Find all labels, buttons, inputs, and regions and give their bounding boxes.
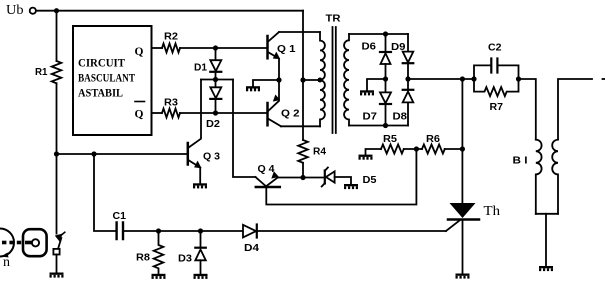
svg-text:R1: R1 — [35, 67, 48, 78]
inductor B1 right winding — [552, 140, 558, 214]
wire to Q3 collector — [189, 80, 201, 148]
primary winding — [320, 32, 325, 80]
node junction dot R4/Q4 emitter/D5 — [300, 175, 305, 180]
svg-text:D5: D5 — [363, 175, 377, 186]
wire switch to ground — [56, 255, 58, 273]
wire C2R7 to B1 left winding — [519, 79, 536, 140]
svg-text:R2: R2 — [164, 32, 178, 43]
diode D6 — [385, 34, 387, 52]
svg-text:TR: TR — [326, 14, 342, 25]
svg-text:D9: D9 — [391, 42, 406, 53]
wire center tap — [303, 79, 320, 81]
wire B1 to ground — [545, 214, 547, 266]
node junction dot D9/D8/output — [405, 76, 410, 81]
resistor R1 — [52, 61, 62, 83]
wire R3 to Q2 base — [180, 112, 266, 114]
svg-text:R6: R6 — [426, 134, 440, 145]
wire to Q4 base — [233, 80, 256, 178]
wire motor shaft dashes — [2, 241, 32, 245]
svg-text:D3: D3 — [178, 254, 192, 265]
switch contact arrow — [55, 233, 63, 241]
wire rect top D1D2 junction — [201, 79, 233, 81]
node junction dot at R1 top — [54, 8, 59, 13]
svg-text:Q: Q — [135, 109, 144, 121]
tachometer inner circle — [32, 239, 39, 246]
svg-text:R7: R7 — [490, 102, 504, 113]
svg-text:D6: D6 — [362, 42, 377, 53]
node junction dot D2/R3 — [213, 110, 218, 115]
svg-text:BASCULANT: BASCULANT — [78, 73, 135, 85]
wire left rail upper — [56, 11, 58, 61]
core lines — [333, 27, 336, 133]
node junction dot R6/Th — [460, 146, 465, 151]
node junction dot D1/D2 — [213, 77, 218, 82]
node junction dot output / Th branch — [460, 76, 465, 81]
svg-text:Ub: Ub — [6, 3, 24, 18]
ground D5 — [344, 184, 358, 189]
wire R5 to R6 — [404, 148, 422, 150]
node junction dot R5/R6/Q4 collector — [414, 146, 419, 151]
thyristor Th — [450, 203, 476, 218]
svg-text:Th: Th — [484, 204, 501, 219]
resistor R7 — [474, 79, 519, 96]
svg-text:D4: D4 — [244, 243, 259, 254]
node junction dot D6/D7/ground — [383, 76, 388, 81]
svg-text:ASTABIL: ASTABIL — [78, 88, 123, 100]
node junction dot D3 — [198, 228, 203, 233]
node junction dot R1/base line — [54, 151, 59, 156]
svg-text:C2: C2 — [488, 43, 502, 54]
secondary winding — [344, 34, 349, 126]
svg-text:CIRCUIT: CIRCUIT — [78, 58, 125, 70]
wire Q3 base line — [57, 153, 187, 155]
svg-text:n: n — [3, 255, 10, 270]
node junction dot R8 — [156, 228, 161, 233]
node junction dot C2R7 left — [471, 76, 476, 81]
transistor Q3 — [187, 143, 190, 165]
resistor R6 — [422, 145, 445, 154]
wire B1 bottom bar — [536, 213, 558, 215]
wire Q-bar output — [152, 112, 163, 114]
resistor R8 — [154, 231, 164, 274]
wire Th gate diagonal — [446, 221, 460, 232]
svg-text:R5: R5 — [383, 134, 397, 145]
wire left rail to switch — [56, 154, 58, 234]
wire right edge stub — [603, 78, 605, 80]
svg-text:Q 4: Q 4 — [258, 164, 275, 175]
wire C1 to D4 — [124, 230, 243, 232]
node junction dot R2/D1 — [213, 45, 218, 50]
box CIRCUIT BASCULANT ASTABIL — [73, 26, 152, 135]
diode D7 — [385, 79, 387, 92]
ground Q3 emitter — [193, 183, 207, 188]
node junction dot top rail / D6 — [383, 31, 388, 36]
transistor Q1 — [266, 36, 269, 58]
svg-text:Q 1: Q 1 — [277, 44, 296, 55]
transistor Q2 — [266, 103, 269, 125]
node center tap dot on primary winding — [318, 78, 323, 83]
wire Ub to center-tap branch — [36, 10, 303, 12]
inductor B1 left winding — [536, 140, 542, 214]
svg-text:B I: B I — [513, 156, 528, 167]
motor circle — [0, 229, 14, 257]
node junction dot bottom rail / D7 — [383, 123, 388, 128]
node junction dot emitters/ground — [276, 77, 281, 82]
ground Q1/Q2 emitters — [253, 80, 279, 86]
ground bridge mid-left — [367, 79, 386, 90]
ground B1 — [539, 266, 553, 271]
wire C1 branch vertical — [94, 154, 116, 231]
wire R2 to Q1 base — [180, 47, 266, 49]
svg-text:Q 2: Q 2 — [281, 109, 300, 120]
resistor R5 — [381, 145, 404, 154]
diode D2 — [215, 80, 217, 88]
node junction dot C2R7 right — [516, 76, 521, 81]
wire R6 to Th branch — [445, 148, 463, 150]
svg-text:R8: R8 — [136, 253, 150, 264]
diode D3 — [200, 231, 202, 248]
diode D9 — [407, 34, 409, 51]
svg-text:D8: D8 — [393, 112, 408, 123]
capacitor C2 — [474, 65, 490, 79]
wire secondary top rail — [349, 33, 408, 35]
wire Q output — [152, 47, 163, 49]
svg-text:D7: D7 — [363, 112, 378, 123]
svg-text:C1: C1 — [113, 211, 127, 222]
ground switch — [50, 273, 64, 278]
diode D1 — [215, 48, 217, 60]
wire secondary bottom rail — [349, 125, 408, 127]
svg-text:Q: Q — [135, 46, 144, 58]
resistor R4 — [298, 140, 308, 163]
wire Q2 collector rail — [281, 125, 320, 127]
node junction dot Ub/center-tap/R4 — [300, 77, 305, 82]
transistor Q4 — [256, 177, 266, 186]
motor rotation arrow — [1, 253, 9, 258]
ground D3 — [194, 274, 208, 279]
resistor R3 — [162, 109, 180, 118]
ground R5 left — [366, 149, 382, 155]
wire bridge output to C2R7 — [408, 78, 474, 80]
wire R5R6 to Th vertical — [461, 79, 463, 203]
capacitor C1 — [117, 223, 123, 240]
wire Q1 collector rail — [279, 31, 320, 33]
svg-text:R3: R3 — [164, 98, 178, 109]
terminal Ub open circle — [30, 8, 36, 14]
switch fixed contact square — [53, 249, 59, 255]
svg-text:R4: R4 — [313, 147, 326, 158]
svg-text:D2: D2 — [206, 119, 220, 130]
diode D4 — [243, 225, 256, 238]
tachometer rounded box — [23, 229, 47, 256]
switch lever — [58, 238, 61, 249]
svg-text:Q 3: Q 3 — [203, 152, 220, 163]
wire Ub vertical to center tap and R4 — [302, 11, 304, 140]
svg-text:D1: D1 — [194, 63, 207, 74]
diode D8 — [407, 79, 409, 90]
node junction dot base line / C1 branch — [91, 151, 96, 156]
ground Th — [456, 274, 470, 279]
wire left rail lower — [56, 83, 58, 154]
resistor R2 — [162, 44, 180, 53]
ground R8 — [152, 274, 166, 279]
wire B1 right winding top — [558, 79, 592, 140]
zener diode D5 — [324, 171, 326, 184]
